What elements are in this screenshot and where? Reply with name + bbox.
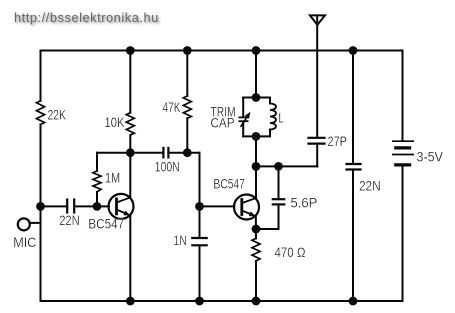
node top rail H xyxy=(349,46,358,55)
wire 47K bottom xyxy=(186,118,188,152)
svg-text:47K: 47K xyxy=(163,99,181,115)
node collector line E xyxy=(252,162,261,171)
svg-text:27P: 27P xyxy=(328,133,348,149)
node emitter xyxy=(252,225,261,234)
wire top rail xyxy=(41,50,403,52)
svg-text:100N: 100N xyxy=(155,158,180,174)
wire tank left upper xyxy=(242,98,244,117)
svg-text:CAP: CAP xyxy=(211,114,235,130)
wire tank to collector node xyxy=(255,136,257,166)
node 1M base junction xyxy=(93,202,102,211)
node bottom rail H xyxy=(349,297,358,306)
wire 100N right xyxy=(168,152,199,154)
wire tank feed xyxy=(255,51,257,98)
wire 1M bottom xyxy=(96,192,98,207)
wire 5.6P top xyxy=(278,166,280,199)
resistor 470 xyxy=(252,238,260,261)
antenna xyxy=(310,15,325,50)
wire tank top xyxy=(243,97,270,99)
svg-text:3-5V: 3-5V xyxy=(417,148,444,164)
wire 1N bottom xyxy=(199,245,201,301)
wire 1M top xyxy=(96,153,98,171)
transistor Q1 BC547 xyxy=(109,194,134,219)
resistor 1M xyxy=(93,171,101,192)
capacitor 22N (mic) xyxy=(67,200,74,213)
wire first stage node line xyxy=(97,152,163,154)
wire Q2 emitter xyxy=(255,216,257,229)
inductor L xyxy=(270,103,276,129)
wire 10K top xyxy=(129,51,131,113)
wire tank left lower xyxy=(242,123,244,137)
wire tank right lower xyxy=(269,130,271,137)
wire base line left xyxy=(41,205,68,207)
wire bottom rail xyxy=(41,300,403,302)
wire down to Q2 base node xyxy=(199,153,201,207)
wire Q2 base xyxy=(200,205,235,207)
svg-text:22K: 22K xyxy=(48,107,67,123)
node bottom rail E xyxy=(252,297,261,306)
svg-text:1M: 1M xyxy=(105,169,120,185)
capacitor 100N xyxy=(163,148,168,158)
node top rail E xyxy=(252,46,261,55)
node bottom rail B xyxy=(126,297,135,306)
trimmer capacitor TRIM CAP xyxy=(239,112,250,126)
resistor 10K xyxy=(126,113,134,135)
svg-text:22N: 22N xyxy=(59,212,80,228)
node base line left xyxy=(36,202,45,211)
wire 47K top xyxy=(186,51,188,97)
node stage1 C xyxy=(183,148,192,157)
capacitor 22N (output) xyxy=(347,164,361,170)
wire 10K bottom xyxy=(129,135,131,153)
battery 3-5V xyxy=(393,51,413,302)
node bottom rail D xyxy=(195,297,204,306)
node tank bottom xyxy=(252,132,261,141)
node Q2 base xyxy=(195,202,204,211)
capacitor 27P xyxy=(309,138,325,144)
node top rail B xyxy=(126,46,135,55)
wire 470 top xyxy=(255,229,257,238)
resistor 47K xyxy=(183,96,191,118)
svg-text:5.6P: 5.6P xyxy=(291,194,318,210)
svg-text:1N: 1N xyxy=(173,232,187,248)
wire 1N top xyxy=(199,206,201,238)
wire antenna to 27P xyxy=(316,51,318,138)
svg-text:10K: 10K xyxy=(105,114,126,130)
node top rail C xyxy=(183,46,192,55)
wire 27P bottom xyxy=(316,144,318,167)
wire 22N2 top xyxy=(352,51,354,164)
wire left column lower xyxy=(40,125,42,302)
wire tank right upper xyxy=(269,98,271,104)
transistor Q2 BC547 xyxy=(234,195,259,220)
node tank top xyxy=(252,93,261,102)
svg-text:L: L xyxy=(279,109,284,125)
wire 5.6P bottom xyxy=(256,204,279,229)
svg-text:BC547: BC547 xyxy=(88,215,124,231)
wire Q2 collector xyxy=(255,166,257,198)
wire collector mid line xyxy=(256,165,317,167)
svg-text:470 Ω: 470 Ω xyxy=(275,244,306,260)
microphone MIC xyxy=(18,218,41,230)
capacitor 5.6P xyxy=(273,199,285,204)
capacitor 1N xyxy=(192,238,206,245)
wire left column upper xyxy=(40,51,42,101)
wire tank bottom xyxy=(243,135,270,137)
watermark xyxy=(14,12,159,25)
wire Q1 collector xyxy=(129,153,131,198)
wire 22N2 bottom xyxy=(352,170,354,302)
resistor 22K xyxy=(37,101,45,125)
svg-text:22N: 22N xyxy=(359,177,381,193)
svg-text:MIC: MIC xyxy=(13,234,36,250)
wire Q1 emitter xyxy=(129,216,131,302)
wire 470 bottom xyxy=(255,261,257,301)
node stage1 B xyxy=(126,148,135,157)
svg-text:BC547: BC547 xyxy=(214,175,245,191)
wire base line right xyxy=(74,205,109,207)
node collector line F xyxy=(274,162,283,171)
